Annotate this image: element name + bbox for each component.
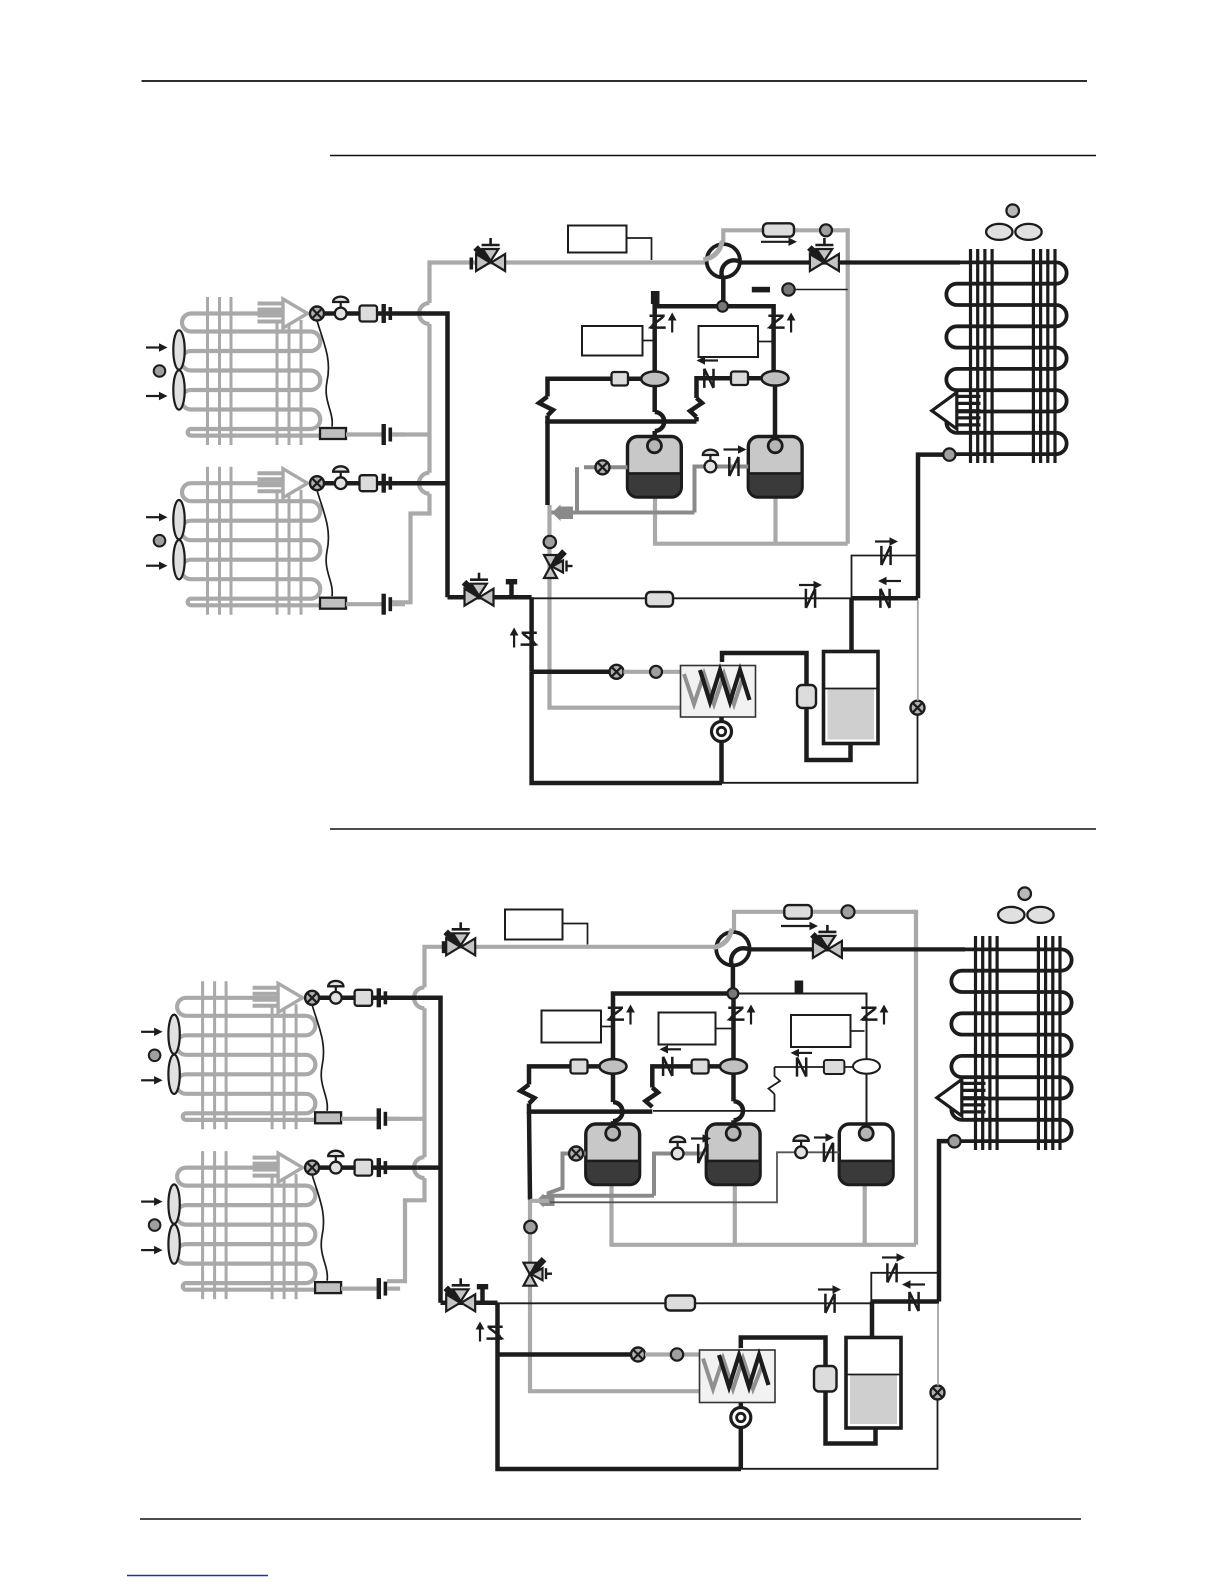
strainer (fig2 comp3 suction)	[824, 1060, 845, 1074]
unit 3 sight glass / sensor	[305, 991, 319, 1005]
flow arrow right (fig2 oil line 2)	[814, 1133, 834, 1141]
unit 1 fan motor	[154, 365, 166, 377]
label box (fig2 control)	[505, 910, 563, 940]
unit 1 supply airflow arrow	[258, 299, 308, 328]
wire: fig1 label box leader	[627, 238, 652, 260]
wire: fig2 thin bottom line	[741, 1400, 938, 1469]
label box (fig2 compressor 3)	[791, 1015, 851, 1047]
relief valve Z3 (fig2 comp3 discharge)	[860, 1005, 889, 1025]
wire: fig2 liquid drop	[495, 1303, 500, 1355]
wire: fig1 suction interconnect right riser	[694, 417, 699, 422]
junction dot (fig1 discharge tee)	[717, 301, 728, 312]
check valve И (fig1 bridge top)	[881, 546, 890, 565]
unit 2 liquid flare union	[382, 594, 393, 615]
expansion valve body (fig2)	[814, 1366, 837, 1392]
wire: fig2 oil line from comp1	[549, 1154, 586, 1197]
wire: fig2 gray return downcomer	[914, 910, 918, 1245]
wire: fig1 black suction header	[422, 314, 448, 598]
relief valve Z2 (fig1 compressor 2 discharge)	[767, 313, 796, 333]
unit 4 shut-off valve	[328, 1151, 343, 1174]
unit 3 suction flare union	[377, 988, 388, 1007]
unit 4 supply airflow arrow	[253, 1153, 303, 1182]
3-way valve V4 wire (fig2 liquid)	[441, 1301, 498, 1306]
wire: fig2 oil equalization line 1	[654, 1154, 706, 1196]
wire: fig1 bottom return	[532, 672, 722, 783]
wire: fig1 oil equalization line	[695, 467, 749, 513]
wire: fig2 interconnect 1 left	[529, 1066, 600, 1084]
unit 3 liquid pipe to header	[387, 1117, 400, 1121]
unit 4 refrigerant distributor	[315, 1282, 341, 1293]
page header rule	[142, 80, 1088, 82]
vibration absorber (fig2 comp1)	[600, 1059, 627, 1074]
strainer (fig2 comp1 suction)	[571, 1060, 588, 1074]
flow arrow right (fig1 liquid)	[799, 581, 822, 589]
compressor C1 body	[628, 437, 682, 498]
condenser coil 2 serpentine	[951, 949, 1071, 1141]
unit 1 TXV capillary tube	[317, 321, 332, 427]
plate heat exchanger (fig1)	[681, 666, 756, 718]
wire: fig1 unit1 liquid branch	[392, 432, 430, 436]
unit 3 coil fins	[203, 981, 297, 1129]
wire: fig1 4-way to gray muffler line	[723, 230, 763, 246]
unit 2 liquid pipe to header	[392, 602, 405, 606]
HX gray coil (fig1)	[684, 674, 742, 704]
receiver tank (fig2)	[846, 1338, 901, 1429]
relief valve Z1 (fig1 compressor 1 discharge)	[648, 313, 677, 333]
wire: fig1 suction interconnect left	[548, 379, 642, 397]
unit 1 liquid pipe to header	[392, 432, 405, 436]
check valve И (fig1 liquid)	[806, 589, 815, 608]
gray ball (fig1 HX feed)	[650, 666, 662, 678]
oil sight glass (fig2)	[569, 1147, 583, 1161]
unit 2 coil (gray serpentine heat exchanger)	[181, 483, 320, 605]
unit 3 airflow-in arrows	[141, 1028, 163, 1085]
figure 1 top rule	[330, 155, 1096, 157]
gray ball (fig2 condenser outlet)	[948, 1135, 960, 1147]
HX gray coil (fig2)	[703, 1359, 762, 1390]
flex joint thin (fig2 right)	[769, 1067, 781, 1094]
check valve N (fig1 bridge bottom)	[880, 589, 889, 608]
unit 4 fan blades	[168, 1184, 179, 1263]
footnote link underline	[127, 1575, 268, 1577]
flow arrow right (fig1 muffler line)	[761, 238, 797, 246]
flow arrow right (fig2 liquid)	[818, 1285, 841, 1293]
wire: fig1 comp1 discharge drop	[655, 386, 665, 437]
unit 3 refrigerant distributor	[315, 1112, 341, 1123]
unit 3 coil (gray serpentine heat exchanger)	[176, 998, 315, 1120]
wire: fig2 gray feed into HX	[645, 1352, 710, 1356]
3-way changeover valve V1 (fig2)	[446, 922, 476, 955]
unit 1 suction flare union	[382, 304, 393, 323]
check valve И (fig2 oil line 2)	[824, 1143, 833, 1162]
wire: fig2 comp3 discharge drop thin	[866, 1074, 868, 1124]
wire: fig1 condenser bottom line	[918, 455, 955, 599]
condenser 2 fan blades	[998, 907, 1054, 923]
wire: fig2 thin gray subcool line	[937, 1304, 939, 1386]
wire: fig1 gray feed into HX	[624, 670, 691, 674]
3-way changeover valve V1 (fig1)	[476, 238, 506, 271]
label box (fig2 compressor 1)	[542, 1011, 602, 1043]
flow arrow left (fig2 bridge bottom)	[902, 1280, 925, 1288]
unit 3 supply airflow arrow	[253, 983, 303, 1012]
oil junction block (fig2)	[537, 1194, 555, 1208]
unit 1 coil fins	[208, 297, 302, 445]
wire: fig2 oil equalization line 2 thin	[550, 1152, 839, 1202]
flex joint (fig2 mid)	[646, 1088, 659, 1108]
wire: fig2 black feed to HX	[498, 1352, 639, 1357]
wire: fig1 expansion to HX top	[722, 653, 807, 685]
discharge muffler (fig1)	[763, 223, 794, 236]
wire: fig1 gray header hop over unit1 suction	[419, 303, 430, 324]
wire: fig1 suction gray line to 4-way valve	[471, 260, 707, 264]
junction dot (fig2 discharge tee)	[728, 988, 739, 999]
unit 4 fan motor	[149, 1219, 161, 1231]
figure 2 top rule	[330, 828, 1096, 830]
unit 1 coil (gray serpentine heat exchanger)	[181, 314, 320, 436]
flow arrow left (fig2 comp3 balance)	[791, 1049, 813, 1057]
unit 2 suction flare union	[382, 474, 393, 493]
wire: fig2 bridge left+top	[871, 1273, 939, 1302]
wire: fig1 suction interconnect upper right	[697, 378, 765, 398]
wire: fig1 oil header	[550, 511, 695, 515]
wire: fig2 gray drain manifold	[610, 1184, 917, 1245]
unit 2 suction pipe	[324, 481, 422, 486]
unit 1 liquid pipe	[346, 432, 382, 436]
unit 2 fan blades	[173, 500, 184, 579]
wire: fig2 gray riser to heat exchanger	[530, 1200, 700, 1392]
wire: fig1 suction interconnect bottom	[548, 416, 697, 422]
oil junction block (fig1)	[552, 505, 573, 522]
4-way reversing valve (fig2)	[713, 929, 750, 966]
unit 3 fan blades	[168, 1015, 179, 1094]
relief valve Z1 (fig2 comp1 discharge)	[606, 1005, 635, 1025]
3-way service valve V2 (fig2)	[812, 925, 842, 958]
unit 4 TXV capillary tube	[312, 1175, 327, 1281]
wire: fig2 thin liquid line	[498, 1302, 666, 1304]
wire: fig1 gray header mid	[427, 324, 431, 473]
wire: fig1 thin liquid line 2	[673, 597, 852, 599]
HX black coil (fig2)	[719, 1355, 769, 1387]
vibration absorber (fig1 comp1)	[641, 372, 668, 387]
unit 4 liquid pipe to header	[387, 1286, 400, 1290]
condenser coil 2 fins	[976, 936, 1061, 1150]
wire: fig2 condenser bottom line	[939, 1141, 960, 1301]
unit 3 liquid flare union	[377, 1108, 388, 1129]
wire: fig1 pressure switch capillary	[795, 289, 848, 291]
unit 4 coil fins	[203, 1151, 297, 1299]
flow arrow left (fig1 bridge bottom)	[878, 577, 901, 585]
wire: fig1 gray drain manifold	[653, 497, 848, 544]
unit 2 supply airflow arrow	[258, 469, 308, 498]
unit 4 suction flare union	[377, 1158, 388, 1177]
flow arrow right (fig1 bridge top)	[875, 537, 898, 545]
unit 4 sight glass / sensor	[305, 1161, 319, 1175]
condenser coil 1 fins	[971, 249, 1056, 463]
check valve N (fig2 interconnect1)	[663, 1057, 672, 1076]
wire: fig2 4-way to gray muffler line	[734, 912, 784, 934]
relief Z + up arrow (fig1 liquid drop)	[510, 628, 539, 648]
wire: fig1 gray header hop over unit2 suction	[419, 473, 430, 494]
capped stub (fig1)	[506, 579, 517, 597]
strainer (fig2 comp2 suction)	[692, 1060, 709, 1074]
wire: fig1 thin bottom line	[722, 715, 918, 783]
wire: fig2 oil header 1	[549, 1194, 654, 1198]
wire: fig1 comp2 discharge drop	[773, 386, 778, 437]
wire: fig1 4-way bottom port	[721, 278, 726, 302]
wire: fig1 4-way right port to condenser	[740, 260, 960, 264]
discharge muffler (fig2)	[784, 905, 811, 919]
circulation pump (fig1)	[712, 722, 732, 742]
plate heat exchanger (fig2)	[700, 1350, 776, 1403]
vent stub (fig1 manifold)	[651, 291, 660, 304]
unit 4 airflow-in arrows	[141, 1197, 163, 1254]
3-way valve V4 (fig1 liquid)	[448, 595, 532, 600]
check valve N (fig2 interconnect2)	[797, 1057, 806, 1076]
gray ball (fig1 liquid riser)	[544, 536, 556, 548]
unit 2 fan motor	[154, 535, 166, 547]
unit 2 coil fins	[208, 467, 302, 615]
unit 3 liquid pipe	[341, 1117, 377, 1121]
wire: fig2 gray liquid header upper	[425, 947, 448, 988]
wire: fig2 expansion to HX top	[741, 1338, 826, 1367]
compressor C3b body	[839, 1124, 893, 1185]
condenser 1 airflow-out arrow	[932, 392, 981, 429]
3-way valve V3 on gray riser (fig1)	[544, 552, 573, 579]
tick mark before fig1 changeover valve	[470, 258, 474, 270]
oil valve (fig2 1-2)	[670, 1137, 685, 1160]
wire: fig1 suction drop black	[545, 422, 550, 506]
3-way valve V3 on gray riser (fig2)	[524, 1259, 553, 1286]
unit 3 shut-off valve	[328, 981, 343, 1004]
wire: fig1 HX to pump	[719, 717, 724, 722]
label box (fig1 compressor 1)	[582, 326, 643, 356]
gray junction ball on muffler line (fig2)	[842, 905, 855, 918]
wire: fig2 bridge bottom	[871, 1299, 939, 1304]
compressor C2b body	[706, 1124, 760, 1185]
check valve И (fig1 oil line)	[729, 457, 738, 476]
unit 4 suction pipe	[319, 1165, 417, 1170]
wire: fig1 box2 leader	[758, 341, 772, 343]
unit 4 liquid pipe	[341, 1286, 377, 1290]
wire: fig1 thin liquid line	[532, 597, 646, 599]
3-way service valve V2 (fig1)	[809, 238, 839, 271]
unit 1 suction pipe	[324, 311, 422, 316]
wire: fig2 gray header lower + jog	[387, 1178, 424, 1281]
unit 1 shut-off valve	[333, 297, 348, 320]
3-way valve V4 body (fig1)	[464, 573, 494, 606]
sight glass (fig2 subcool line)	[931, 1386, 945, 1400]
compressor C2 body	[748, 437, 802, 498]
4-way reversing valve (fig1)	[703, 241, 740, 278]
gray ball (fig2 HX feed)	[671, 1348, 683, 1360]
flex joint (fig1 left)	[539, 397, 553, 416]
gray ball (fig1 condenser outlet)	[943, 448, 955, 460]
wire: fig1 unit2 suction branch	[422, 481, 448, 486]
relief valve Z2 (fig2 comp2 discharge)	[727, 1005, 756, 1025]
pressure switch ball (fig1)	[782, 283, 794, 295]
wire: fig2 suction drop black	[529, 1112, 530, 1200]
wire: fig2 interconnect 1 bottom	[529, 1104, 652, 1112]
wire: fig2 box1 leader	[601, 1026, 611, 1028]
flex joint (fig1 right)	[690, 398, 702, 417]
condenser 2 fan motor	[1018, 887, 1031, 900]
wire: fig1 gray return downcomer	[846, 228, 850, 544]
unit 2 shut-off valve	[333, 466, 348, 489]
unit 3 suction pipe	[319, 996, 417, 1001]
unit 3 fan motor	[149, 1050, 161, 1062]
gray junction ball on muffler line (fig1)	[820, 224, 832, 236]
wire: fig2 thin liquid line 2	[695, 1302, 871, 1304]
unit 4 liquid flare union	[377, 1278, 388, 1299]
check valve N (fig1 interconnect)	[704, 369, 713, 388]
unit 4 solenoid valve body	[355, 1160, 373, 1176]
wire: fig2 HX to pump	[739, 1403, 744, 1408]
check valve N (fig2 bridge bottom)	[909, 1292, 918, 1311]
unit 1 airflow-in arrows	[146, 343, 168, 400]
label box (fig1 compressor 2)	[699, 326, 759, 357]
unit 2 refrigerant distributor	[320, 598, 346, 609]
capped stub (fig2)	[477, 1284, 488, 1303]
wire: fig1 bridge bottom	[852, 596, 919, 601]
expansion valve body (fig1)	[797, 685, 816, 708]
flow arrow right (fig2 oil line 1)	[691, 1134, 711, 1142]
unit 3 solenoid valve body	[355, 990, 373, 1006]
circulation pump (fig2)	[731, 1408, 751, 1428]
condenser 1 fan blades	[986, 224, 1042, 240]
wire: fig2 unit3 liquid branch	[387, 1117, 424, 1121]
wire: fig1 tank outlet loop	[807, 708, 851, 760]
flow arrow right (fig2 bridge top)	[882, 1253, 905, 1261]
wire: fig1 oil line from comp1	[577, 467, 628, 512]
flow arrow left (fig1 suction balance)	[697, 356, 719, 364]
wire: fig2 unit4 suction branch	[417, 1165, 440, 1170]
wire: fig2 gray line muffler to corner	[812, 910, 916, 914]
unit 1 liquid flare union	[382, 424, 393, 445]
sight glass (fig1 subcool line)	[911, 701, 925, 715]
unit 2 airflow-in arrows	[146, 513, 168, 570]
strainer (fig1 comp1 suction)	[612, 372, 629, 386]
label box (fig2 compressor 2)	[659, 1013, 716, 1045]
page footer rule	[140, 1518, 1081, 1520]
wire: fig1 gray header lower + jog	[392, 494, 430, 603]
wire: fig1 black feed to HX	[532, 670, 617, 675]
wire: fig2 tank outlet loop	[826, 1392, 876, 1444]
unit 2 TXV capillary tube	[317, 490, 332, 596]
unit 1 fan blades	[173, 330, 184, 409]
unit 2 sight glass / sensor	[310, 476, 324, 490]
wire: fig1 thin gray subcool line	[917, 600, 919, 701]
check valve И (fig2 bridge top)	[887, 1263, 896, 1282]
flow arrow right (fig1 oil line)	[724, 445, 747, 453]
wire: fig2 box3 leader	[851, 1030, 865, 1032]
compressor C1b body	[586, 1124, 640, 1185]
vibration absorber (fig2 comp3)	[853, 1059, 880, 1074]
oil valve (fig2 2-3)	[794, 1135, 809, 1158]
condenser 1 fan motor	[1006, 204, 1019, 217]
wire: fig2 discharge manifold thick	[613, 994, 734, 1067]
unit 1 refrigerant distributor	[320, 428, 346, 439]
wire: fig2 gray stub to oil junction	[530, 1199, 549, 1203]
unit 2 solenoid valve body	[360, 475, 378, 491]
filter drier (fig2)	[666, 1296, 696, 1311]
wire: fig1 discharge manifold	[655, 306, 774, 379]
filter drier (fig1)	[646, 592, 673, 607]
vibration absorber (fig2 comp2)	[720, 1059, 747, 1074]
wire: fig2 box2 leader	[716, 1028, 732, 1030]
wire: fig2 comp2 discharge drop	[734, 1074, 744, 1124]
oil sight glass (fig1)	[596, 460, 610, 474]
oil valve (fig1)	[703, 450, 718, 473]
vibration absorber (fig1 comp2)	[762, 371, 789, 386]
wire: fig2 suction gray line to 4-way valve	[447, 945, 717, 949]
wire: fig1 liquid drop	[529, 597, 534, 672]
wire: fig2 interconnect 1 top right	[652, 1066, 722, 1087]
label box (fig1 control)	[568, 226, 627, 253]
wire: fig2 tank inlet	[870, 1302, 875, 1340]
relief Z + up arrow (fig2 liquid drop)	[476, 1322, 505, 1342]
unit 3 TXV capillary tube	[312, 1005, 327, 1111]
pressure tap bar (fig1)	[752, 287, 770, 293]
condenser 2 airflow-out arrow	[937, 1079, 986, 1116]
tick mark before fig2 changeover valve	[442, 941, 446, 953]
wire: fig1 gray line muffler to corner	[794, 228, 848, 232]
wire: fig2 gray header hop over unit3 suction	[414, 987, 424, 1008]
sight glass (fig2 HX feed)	[631, 1348, 645, 1362]
flow arrow left (fig2 comp2 balance)	[660, 1045, 682, 1053]
wire: fig2 black suction header	[417, 998, 440, 1303]
condenser coil 1 serpentine	[946, 262, 1066, 454]
unit 1 sight glass / sensor	[310, 307, 324, 321]
wire: fig1 gray liquid header upper	[430, 263, 472, 304]
gray ball (fig2 liquid riser)	[524, 1221, 537, 1234]
vent stub (fig2 manifold)	[795, 981, 804, 994]
wire: fig2 discharge manifold thin	[733, 994, 867, 1067]
wire: fig2 4-way right port to condenser	[750, 947, 966, 951]
wire: fig2 gray header mid	[422, 1008, 426, 1157]
check valve И (fig2 liquid)	[825, 1294, 834, 1313]
wire: fig1 tank inlet	[849, 598, 854, 653]
flow arrow right (fig2 muffler line)	[781, 922, 818, 930]
wire: fig1 gray riser to heat exchanger	[550, 505, 681, 708]
receiver tank (fig1)	[824, 652, 879, 744]
strainer (fig1 comp2 suction)	[731, 372, 748, 386]
flex joint (fig2 left)	[521, 1085, 535, 1104]
wire: fig2 comp1 discharge drop	[613, 1074, 623, 1124]
unit 4 coil (gray serpentine heat exchanger)	[176, 1168, 315, 1290]
wire: fig2 bottom return	[498, 1355, 742, 1470]
wire: fig1 bridge left+top	[852, 556, 919, 599]
wire: fig2 interconnect 2 top	[775, 1066, 856, 1068]
HX black coil (fig1)	[700, 670, 750, 702]
wire: fig2 interconnect 2 thin	[653, 1094, 775, 1111]
wire: fig2 label box leader	[563, 924, 588, 945]
unit 1 solenoid valve body	[360, 306, 378, 322]
sight glass (fig1 HX feed)	[610, 665, 624, 679]
wire: fig2 4-way bottom port	[731, 966, 736, 989]
wire: fig2 gray header hop over unit4 suction	[414, 1157, 424, 1178]
wire: fig1 box1 leader	[643, 340, 653, 342]
check valve И (fig2 oil line 1)	[698, 1144, 707, 1163]
unit 2 liquid pipe	[346, 602, 382, 606]
3-way valve V4 body (fig2)	[446, 1278, 476, 1311]
